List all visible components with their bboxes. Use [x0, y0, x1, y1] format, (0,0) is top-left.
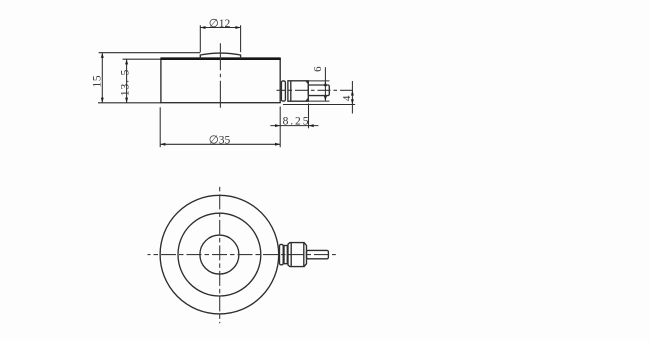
svg-text:15: 15	[91, 75, 103, 88]
shared bottom extension to left dims	[98, 102, 161, 104]
dimension 6 top extension	[308, 80, 329, 82]
connector gland nut (side view)	[288, 81, 308, 101]
middle circle (plan view)	[178, 213, 261, 296]
cable stub (side view)	[308, 85, 329, 96]
dimension 6 line	[324, 67, 326, 101]
arrow 13.5 bottom	[125, 98, 128, 103]
arrow 6 top	[324, 81, 327, 86]
dimension Ø35 / 8.25 shared extension right	[279, 107, 281, 148]
nut facet line right (plan view)	[303, 243, 305, 267]
connector washer (side view)	[281, 81, 285, 101]
dimension 13.5 line	[126, 59, 128, 103]
arrow 8.25 right (outside)	[309, 124, 314, 127]
vertical center line (plan view)	[219, 186, 221, 323]
connector axis center line (side view)	[277, 89, 355, 91]
arrow 4 top	[351, 90, 354, 95]
dimension Ø35 extension left	[159, 107, 161, 147]
dimension Ø12 extension left	[199, 25, 201, 52]
nut right chamfer top	[306, 81, 308, 84]
dimension 13.5 top extension	[123, 58, 161, 60]
nut facet line left (plan view)	[290, 243, 292, 267]
dimension Ø12 line	[200, 27, 240, 29]
vertical center line (side view)	[219, 43, 221, 110]
dimension Ø35 line	[160, 143, 280, 145]
svg-text:4: 4	[341, 95, 353, 101]
arrow Ø12 right	[235, 26, 240, 29]
connector band (plan view)	[284, 246, 287, 264]
arrow Ø35 left	[160, 143, 165, 146]
dimension 4 bottom reference line	[283, 104, 355, 106]
svg-text:∅12: ∅12	[209, 18, 231, 30]
bold loading-surface top edge	[160, 57, 280, 60]
dimension 8.25 line	[270, 125, 318, 127]
body outline (side view)	[161, 59, 280, 103]
cable stub (plan view)	[307, 250, 329, 258]
arrow Ø12 left	[200, 26, 205, 29]
dimension 15 top extension	[99, 52, 201, 54]
arrow 4 bottom	[351, 99, 354, 104]
svg-text:8.25: 8.25	[283, 115, 311, 127]
arrow 8.25 left (outside)	[275, 124, 280, 127]
connector washer (plan view)	[280, 244, 284, 264]
dimension Ø12 extension right	[240, 25, 242, 52]
nut collar facet line	[290, 81, 292, 101]
arrow Ø35 right	[275, 143, 280, 146]
outer circle Ø35 (plan view)	[160, 195, 279, 314]
arrow 6 bottom	[324, 96, 327, 101]
dimension 8.25 right extension	[308, 103, 310, 128]
dimension 6 bottom extension	[308, 100, 329, 102]
dimension 4 line	[351, 81, 353, 114]
svg-text:13. 5: 13. 5	[120, 69, 132, 97]
boss dome (Ø12 button)	[200, 53, 240, 59]
arrow 15 bottom	[101, 98, 104, 103]
svg-text:6: 6	[312, 66, 324, 72]
horizontal center line (plan view)	[148, 254, 336, 256]
arrow 15 top	[101, 53, 104, 58]
nut right chamfer bottom	[306, 99, 308, 102]
arrow 13.5 top	[125, 59, 128, 64]
connector gland nut (plan view)	[288, 243, 307, 267]
svg-text:∅35: ∅35	[209, 134, 231, 146]
dimension 15 line	[101, 53, 103, 103]
inner circle boss Ø12 (plan view)	[200, 235, 239, 274]
